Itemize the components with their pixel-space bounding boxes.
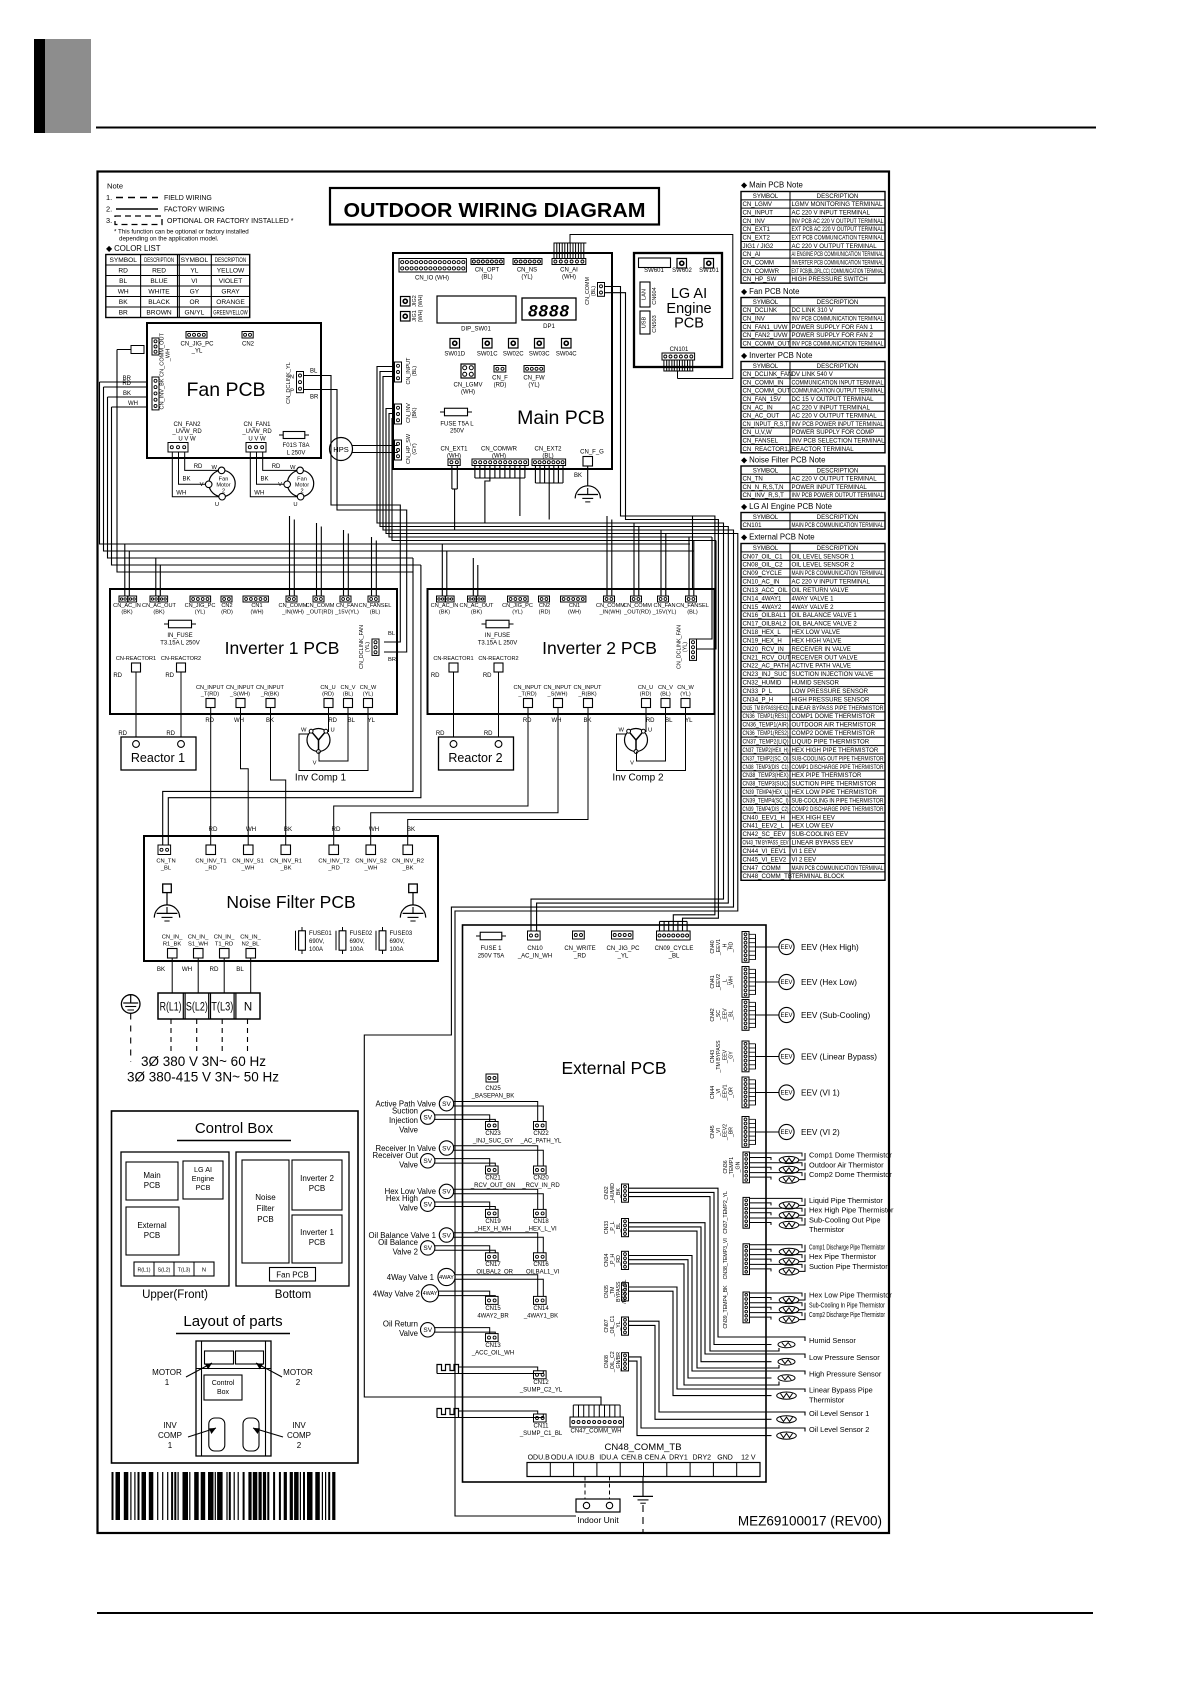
svg-text:RD: RD <box>523 718 532 724</box>
table Noise Filter PCB Note <box>741 466 885 499</box>
Noise Filter PCB board <box>144 836 438 961</box>
crankcase heater comp2 <box>437 1365 459 1374</box>
svg-text:YL: YL <box>368 718 376 724</box>
svg-text:CN1: CN1 <box>569 603 580 609</box>
svg-text:CN_COMM_OUT: CN_COMM_OUT <box>743 388 791 395</box>
wire CN_INV p1 to external bottom bundle <box>386 409 738 1517</box>
svg-text:CN13_ACC_OIL: CN13_ACC_OIL <box>743 587 789 594</box>
svg-text:LG AI: LG AI <box>671 286 707 302</box>
inverter 1 connector CN_AC_OUT <box>150 596 159 602</box>
fuse main FUSE T5A <box>440 411 472 413</box>
svg-text:Fan PCB: Fan PCB <box>276 1271 308 1280</box>
ground CN_F_G <box>587 466 589 486</box>
svg-text:DESCRIPTION: DESCRIPTION <box>817 299 859 306</box>
svg-text:Valve: Valve <box>399 1126 418 1135</box>
connector CN_INV main <box>395 404 402 424</box>
svg-text:FUSE01: FUSE01 <box>309 931 332 937</box>
svg-text:CN_V: CN_V <box>658 685 673 691</box>
thermistor linear bypass pipe <box>777 1392 797 1399</box>
svg-text:OPTIONAL OR FACTORY INSTALLED: OPTIONAL OR FACTORY INSTALLED * <box>167 218 294 225</box>
svg-text:(BL): (BL) <box>343 692 354 698</box>
svg-text:CN-REACTOR2: CN-REACTOR2 <box>161 656 201 662</box>
svg-text:COMMUNICATION OUTPUT TERMINAL: COMMUNICATION OUTPUT TERMINAL <box>792 388 884 395</box>
fuse FUSE02 <box>342 927 344 954</box>
svg-text:(RD): (RD) <box>221 610 233 616</box>
wire CN_COMM A to CN09 <box>605 287 715 922</box>
svg-text:Comp2 Dome Thermistor: Comp2 Dome Thermistor <box>809 1170 892 1179</box>
svg-text:L 250V: L 250V <box>287 451 306 457</box>
svg-text:CN36_TEMP1(AIR): CN36_TEMP1(AIR) <box>743 722 789 729</box>
svg-text:_15V(YL): _15V(YL) <box>334 610 359 616</box>
svg-text:SW03C: SW03C <box>529 352 550 358</box>
layout compressor 1 <box>209 1418 225 1451</box>
valve motor EEV EEV (VI 2) <box>779 1124 794 1139</box>
wires CN101 comb <box>664 360 667 371</box>
svg-text:_RCV_OUT_GN: _RCV_OUT_GN <box>470 1183 515 1189</box>
svg-text:CN604: CN604 <box>652 287 658 304</box>
wires inverter1 inputs to noise filter <box>210 708 212 846</box>
wires noise filter to terminal block <box>171 958 173 993</box>
svg-text:COMMUNICATION INPUT TERMINAL: COMMUNICATION INPUT TERMINAL <box>792 379 885 386</box>
inverter 1 connector CN_COMM_IN <box>286 596 297 602</box>
svg-text:Receiver Out: Receiver Out <box>373 1151 419 1160</box>
svg-text:CN18_HEX_L: CN18_HEX_L <box>743 629 782 636</box>
svg-text:CN14: CN14 <box>533 1306 549 1312</box>
svg-text:SW04C: SW04C <box>556 352 577 358</box>
svg-text:Valve: Valve <box>399 1329 418 1338</box>
svg-text:CN_JIG_PC: CN_JIG_PC <box>502 603 533 609</box>
svg-text:CN20: CN20 <box>533 1175 549 1181</box>
svg-text:CN10_AC_IN: CN10_AC_IN <box>743 579 780 586</box>
svg-text:4WAY VALVE 2: 4WAY VALVE 2 <box>792 604 835 611</box>
svg-text:◆ Fan PCB Note: ◆ Fan PCB Note <box>741 287 799 296</box>
svg-text:INV PCB POWER INPUT TERMINAL: INV PCB POWER INPUT TERMINAL <box>792 421 885 428</box>
thermistor Comp1 Dome Thermistor <box>750 1153 803 1157</box>
svg-text:Noise Filter PCB: Noise Filter PCB <box>226 892 355 912</box>
svg-text:_S(WH): _S(WH) <box>547 692 568 698</box>
svg-text:Reactor 1: Reactor 1 <box>131 751 185 765</box>
svg-text:WH: WH <box>234 718 244 724</box>
svg-text:CN_JIG_PC: CN_JIG_PC <box>180 342 214 348</box>
svg-text:_SC: _SC <box>716 1010 722 1021</box>
crankcase heater comp1 <box>437 1409 459 1418</box>
svg-text:Control Box: Control Box <box>195 1120 274 1137</box>
svg-text:T3.15A L 250V: T3.15A L 250V <box>478 641 517 647</box>
connector CN12_SUMP_C2 <box>534 1371 547 1379</box>
svg-text:Oil Level Sensor 2: Oil Level Sensor 2 <box>809 1425 869 1434</box>
svg-text:SV: SV <box>423 1114 432 1121</box>
svg-text:CN_DCLINK_FAN: CN_DCLINK_FAN <box>743 371 793 378</box>
connector CN_F <box>494 366 506 373</box>
svg-text:RD: RD <box>205 718 214 724</box>
svg-text:External PCB: External PCB <box>561 1058 666 1078</box>
svg-text:RD: RD <box>646 718 655 724</box>
svg-text:COMP: COMP <box>158 1431 182 1440</box>
layout unit outline <box>196 1341 271 1456</box>
svg-text:DC 15 V OUTPUT TERMINAL: DC 15 V OUTPUT TERMINAL <box>792 396 875 403</box>
valve motor EEV EEV (Hex High) <box>779 939 794 954</box>
svg-text:R(L1): R(L1) <box>160 1002 182 1014</box>
svg-text:CN_INPUT: CN_INPUT <box>743 209 774 216</box>
svg-text:MEZ69100017 (REV00): MEZ69100017 (REV00) <box>738 1514 882 1529</box>
page footer rule <box>97 1612 1093 1614</box>
svg-text:LINEAR BYPASS EEV: LINEAR BYPASS EEV <box>792 840 854 847</box>
bottom noise filter box <box>242 1160 289 1263</box>
svg-text:Hex High: Hex High <box>386 1194 418 1203</box>
svg-text:_EEV2: _EEV2 <box>722 1124 728 1141</box>
svg-text:CN_COMM_IN: CN_COMM_IN <box>743 379 784 386</box>
svg-text:INV PCB AC 220 V OUTPUT TERMIN: INV PCB AC 220 V OUTPUT TERMINAL <box>792 218 884 225</box>
sensor oil level 2 <box>777 1432 797 1439</box>
svg-text:OUTDOOR AIR THERMISTOR: OUTDOOR AIR THERMISTOR <box>792 722 877 729</box>
svg-text:Inverter 2 PCB: Inverter 2 PCB <box>542 638 657 658</box>
svg-text:BL: BL <box>388 631 396 637</box>
svg-text:_T(RD): _T(RD) <box>517 692 536 698</box>
wires CN_TN up to gap bus <box>163 558 413 845</box>
svg-text:RD: RD <box>118 731 127 737</box>
svg-text:N: N <box>290 375 294 381</box>
svg-text:DESCRIPTION: DESCRIPTION <box>144 258 174 264</box>
svg-text:Reactor 2: Reactor 2 <box>448 751 502 765</box>
svg-text:Linear Bypass Pipe: Linear Bypass Pipe <box>809 1385 873 1394</box>
svg-text:CN20_RCV_IN: CN20_RCV_IN <box>743 646 784 653</box>
connector CN_INPUT main <box>395 362 402 382</box>
svg-text:CN38_TEMP3(HEX): CN38_TEMP3(HEX) <box>743 772 789 779</box>
svg-text:Comp1 Discharge Pipe Thermisto: Comp1 Discharge Pipe Thermistor <box>809 1242 885 1251</box>
jig connector JIG1 <box>401 312 411 322</box>
wire CN_INPUT p3 to external left bundle <box>364 377 733 1406</box>
connector CN_COMM_OUT_WH <box>152 338 159 355</box>
svg-text:2: 2 <box>296 1378 301 1387</box>
svg-text:AC 220 V INPUT TERMINAL: AC 220 V INPUT TERMINAL <box>792 209 871 216</box>
svg-text:BLACK: BLACK <box>148 299 170 306</box>
thermistor Comp2 Discharge Pipe Thermistor <box>750 1313 803 1317</box>
svg-text:RD: RD <box>113 673 122 679</box>
svg-text:_UVW_RD: _UVW_RD <box>171 429 202 435</box>
switch SW03C <box>535 339 545 349</box>
svg-text:CN_FANSEL: CN_FANSEL <box>676 603 709 609</box>
svg-text:Box: Box <box>217 1389 230 1396</box>
wire stub inverter1 1 <box>124 544 126 596</box>
svg-text:N: N <box>244 1002 252 1014</box>
Fan PCB board <box>147 323 321 458</box>
upper lg ai box <box>183 1161 223 1199</box>
title box OUTDOOR WIRING DIAGRAM <box>330 188 659 225</box>
svg-text:Noise: Noise <box>255 1193 276 1202</box>
svg-text:P: P <box>290 388 294 394</box>
svg-text:CN_AI: CN_AI <box>743 251 761 258</box>
connector CN11_SUMP_C1 <box>534 1414 547 1422</box>
svg-text:SW02C: SW02C <box>503 352 524 358</box>
svg-text:CN-REACTOR2: CN-REACTOR2 <box>478 656 518 662</box>
solenoid SV receiver out <box>421 1154 435 1168</box>
wire fan BR bus <box>100 382 691 544</box>
svg-text:BK: BK <box>583 718 591 724</box>
thermistor Hex High Pipe Thermistor <box>750 1208 803 1212</box>
svg-text:2: 2 <box>297 1441 302 1450</box>
svg-text:Upper(Front): Upper(Front) <box>142 1289 208 1301</box>
svg-text:SYMBOL: SYMBOL <box>753 514 779 521</box>
svg-text:Main: Main <box>143 1171 160 1180</box>
svg-text:SV: SV <box>423 1245 432 1252</box>
svg-text:CN21_RCV_OUT: CN21_RCV_OUT <box>743 654 791 661</box>
svg-text:CN48_COMM_TB: CN48_COMM_TB <box>743 873 792 880</box>
svg-text:_OR: _OR <box>729 1087 735 1099</box>
svg-text:CN_DCLINK_YL: CN_DCLINK_YL <box>286 362 292 404</box>
wire stub inverter1 7 <box>316 523 318 596</box>
svg-text:GND: GND <box>717 1455 733 1462</box>
svg-text:CN_FW: CN_FW <box>523 376 545 382</box>
connector CN18_HEX_L <box>534 1209 547 1217</box>
svg-text:CN39_TEMP4(DIS_C2): CN39_TEMP4(DIS_C2) <box>743 806 789 813</box>
connector CN_INV_S1 <box>244 845 254 855</box>
svg-text:Fan PCB: Fan PCB <box>186 379 265 401</box>
svg-text:DESCRIPTION: DESCRIPTION <box>817 514 859 521</box>
svg-text:WHITE: WHITE <box>148 289 170 296</box>
svg-text:IDU.A: IDU.A <box>599 1455 618 1462</box>
solenoid SV suction injection <box>421 1110 435 1124</box>
svg-text:(WH): (WH) <box>568 610 581 616</box>
svg-text:3Ø 380 V 3N~ 60 Hz: 3Ø 380 V 3N~ 60 Hz <box>141 1054 266 1069</box>
svg-text:CN07_OIL_C1: CN07_OIL_C1 <box>743 553 784 560</box>
svg-text:BL: BL <box>310 369 318 375</box>
svg-text:4WAY: 4WAY <box>439 1275 454 1281</box>
svg-text:ORANGE: ORANGE <box>216 299 245 306</box>
svg-text:_WH: _WH <box>364 866 378 872</box>
svg-text:CN1: CN1 <box>251 603 262 609</box>
svg-text:CN_INV_T1: CN_INV_T1 <box>195 859 226 865</box>
svg-text:ODU.B: ODU.B <box>528 1455 551 1462</box>
svg-text:CN43: CN43 <box>710 1050 716 1063</box>
Main PCB board <box>393 253 612 469</box>
connector CN16_OILBAL1 <box>534 1253 547 1261</box>
sensor low pressure <box>778 1358 795 1365</box>
svg-text:POWER SUPPLY FOR FAN 2: POWER SUPPLY FOR FAN 2 <box>792 332 874 339</box>
svg-text:High Pressure Sensor: High Pressure Sensor <box>809 1370 882 1379</box>
svg-text:FACTORY WIRING: FACTORY WIRING <box>164 207 225 214</box>
svg-text:CN_FANSEL: CN_FANSEL <box>743 437 779 444</box>
svg-text:CN_COMM: CN_COMM <box>743 259 774 266</box>
svg-text:MAIN PCB COMMUNICATION TERMINA: MAIN PCB COMMUNICATION TERMINAL <box>792 570 884 577</box>
svg-text:HPS: HPS <box>333 445 348 454</box>
svg-text:DRY2: DRY2 <box>692 1455 711 1462</box>
svg-text:VIOLET: VIOLET <box>219 278 242 285</box>
svg-text:WH: WH <box>118 289 129 296</box>
svg-text:Inverter 1: Inverter 1 <box>300 1228 334 1237</box>
solenoid SV oil balance 2 <box>421 1241 435 1255</box>
svg-text:Valve 2: Valve 2 <box>393 1247 418 1256</box>
solenoid 4WAY valve 1 <box>438 1268 455 1285</box>
dashed wires to indoor unit <box>584 1477 586 1500</box>
connector CN19_HEX_H <box>486 1209 499 1217</box>
svg-text:_WH: _WH <box>729 976 735 989</box>
fuse FUSE03 <box>382 927 384 954</box>
svg-text:CN36: CN36 <box>723 1160 729 1173</box>
wires CN16 to SV oil balance 1 <box>454 1233 538 1253</box>
svg-text:PCB: PCB <box>144 1231 160 1240</box>
svg-text:IDU.B: IDU.B <box>576 1455 595 1462</box>
svg-text:_R(BK): _R(BK) <box>260 692 279 698</box>
wires high pressure sensor <box>629 1256 806 1375</box>
svg-text:BL: BL <box>119 278 127 285</box>
inv comp 1 motor <box>307 729 330 752</box>
svg-text:SV: SV <box>442 1145 451 1152</box>
svg-text:_EEV2: _EEV2 <box>716 974 722 991</box>
svg-text:CN08_OIL_C2: CN08_OIL_C2 <box>743 562 784 569</box>
switch SW101 <box>704 259 714 269</box>
svg-text:CN_LGMV: CN_LGMV <box>453 383 482 389</box>
svg-text:_AC_IN_WH: _AC_IN_WH <box>517 954 552 960</box>
svg-text:Filter: Filter <box>257 1204 275 1213</box>
switch SW04C <box>562 339 572 349</box>
svg-text:(BK): (BK) <box>471 610 482 616</box>
svg-text:(BK): (BK) <box>121 610 132 616</box>
svg-text:YL: YL <box>190 268 198 275</box>
wires CN_COMWR comb <box>474 466 476 479</box>
svg-text:VI 1 EEV: VI 1 EEV <box>792 848 818 855</box>
svg-text:_TM BYPASS: _TM BYPASS <box>716 1040 722 1074</box>
svg-text:External: External <box>137 1221 167 1230</box>
wire stub inverter1 6 <box>293 520 295 597</box>
svg-text:EEV: EEV <box>780 980 792 986</box>
svg-text:AC 220 V INPUT TERMINAL: AC 220 V INPUT TERMINAL <box>792 404 871 411</box>
svg-text:CN42_SC_EEV: CN42_SC_EEV <box>743 831 787 838</box>
svg-text:CN_NS: CN_NS <box>517 268 537 274</box>
thermistor Sub-Cooling In Pipe Thermistor <box>750 1303 803 1307</box>
svg-text:Comp2 Discharge Pipe Thermisto: Comp2 Discharge Pipe Thermistor <box>809 1310 885 1319</box>
svg-text:S1_WH: S1_WH <box>188 942 208 948</box>
svg-text:BL: BL <box>236 966 244 973</box>
svg-text:◆ Noise Filter PCB Note: ◆ Noise Filter PCB Note <box>741 456 825 465</box>
svg-text:CN_AC_OUT: CN_AC_OUT <box>460 603 494 609</box>
svg-text:SYMBOL: SYMBOL <box>753 363 779 370</box>
svg-text:◆ Inverter PCB Note: ◆ Inverter PCB Note <box>741 351 812 360</box>
svg-text:1.: 1. <box>106 193 112 202</box>
svg-text:RD: RD <box>328 718 337 724</box>
svg-text:DV LINK 540 V: DV LINK 540 V <box>792 371 834 378</box>
wires oil level sensor 1 <box>629 1321 806 1415</box>
svg-text:CN_AC_IN: CN_AC_IN <box>431 603 459 609</box>
svg-text:EEV: EEV <box>780 945 792 951</box>
svg-text:BLUE: BLUE <box>150 278 168 285</box>
svg-text:_BK: _BK <box>280 866 292 872</box>
svg-text:(YL): (YL) <box>363 692 374 698</box>
valve motor EEV EEV (Linear Bypass) <box>779 1049 794 1064</box>
svg-text:INV PCB SELECTION TERMINAL: INV PCB SELECTION TERMINAL <box>792 437 886 444</box>
svg-text:CN_AC_OUT: CN_AC_OUT <box>743 413 780 420</box>
wires low pressure sensor <box>629 1223 806 1358</box>
svg-text:YELLOW: YELLOW <box>217 268 245 275</box>
svg-text:Comp1 Dome Thermistor: Comp1 Dome Thermistor <box>809 1151 892 1160</box>
thermistor Comp1 Discharge Pipe Thermistor <box>750 1245 803 1249</box>
svg-text:OIL LEVEL SENSOR 1: OIL LEVEL SENSOR 1 <box>792 553 855 560</box>
svg-text:CN38_TEMP3(DIS_C1): CN38_TEMP3(DIS_C1) <box>743 764 789 771</box>
svg-text:CN2: CN2 <box>539 603 550 609</box>
svg-text:CN36_TEMP1(RES2): CN36_TEMP1(RES2) <box>743 730 789 737</box>
svg-text:RD: RD <box>118 268 128 275</box>
wire DCLINK BR fan to inverter1 <box>304 390 407 653</box>
wire stub CN_COMM_OUT <box>131 346 144 354</box>
svg-text:BK: BK <box>266 718 274 724</box>
svg-text:VI 2 EEV: VI 2 EEV <box>792 856 818 863</box>
svg-text:CN_INV_S1: CN_INV_S1 <box>232 859 264 865</box>
thermistor Hex Low Pipe Thermistor <box>750 1293 803 1297</box>
svg-text:(YL): (YL) <box>528 383 539 389</box>
svg-text:_HEX_H_WH: _HEX_H_WH <box>474 1226 512 1232</box>
svg-text:CN_INV_T2: CN_INV_T2 <box>318 859 349 865</box>
svg-text:CN38_TEMP3(SUC): CN38_TEMP3(SUC) <box>743 781 789 788</box>
svg-text:CN_INV: CN_INV <box>743 218 766 225</box>
upper terminal strip <box>134 1262 214 1276</box>
svg-text:_T(RD): _T(RD) <box>200 692 219 698</box>
wire CN_COMM_OUT stub <box>117 350 413 573</box>
svg-text:SW01C: SW01C <box>477 352 498 358</box>
svg-text:RD: RD <box>122 381 131 387</box>
svg-text:CN19_HEX_H: CN19_HEX_H <box>743 637 782 644</box>
thermistor Suction Pipe Thermistor <box>750 1264 803 1268</box>
svg-text:DRY1: DRY1 <box>669 1455 688 1462</box>
svg-text:CN_OPT: CN_OPT <box>475 268 500 274</box>
svg-text:_GY: _GY <box>729 1051 735 1063</box>
svg-text:100A: 100A <box>309 947 323 953</box>
wires linear bypass thermistor <box>629 1287 806 1392</box>
svg-text:S(L2): S(L2) <box>186 1002 208 1014</box>
svg-text:WH: WH <box>176 491 186 497</box>
svg-text:SYMBOL: SYMBOL <box>753 467 779 474</box>
svg-text:Thermistor: Thermistor <box>809 1395 845 1404</box>
svg-text:CEN.A: CEN.A <box>644 1455 666 1462</box>
svg-text:_L: _L <box>722 979 728 986</box>
dashed field wiring to mains <box>170 1019 172 1051</box>
solenoid SV oil balance 1 <box>439 1228 453 1242</box>
wires CN22 to SV active path <box>454 1102 538 1122</box>
svg-text:(BK): (BK) <box>439 610 450 616</box>
svg-text:WH: WH <box>254 491 264 497</box>
svg-text:SW101: SW101 <box>699 268 719 274</box>
connector CN15_4WAY2 <box>486 1296 499 1304</box>
svg-text:EEV: EEV <box>780 1130 792 1136</box>
inverter 1 connector CN_FANSEL <box>368 596 379 602</box>
svg-text:CN45_VI_EEV2: CN45_VI_EEV2 <box>743 856 787 863</box>
sensor high pressure <box>778 1375 795 1382</box>
svg-text:_WH: _WH <box>166 349 172 362</box>
table External PCB Note <box>741 544 885 881</box>
svg-text:COMP2 DOME THERMISTOR: COMP2 DOME THERMISTOR <box>792 730 876 737</box>
svg-text:INVERTER PCB COMMUNICATION TER: INVERTER PCB COMMUNICATION TERMINAL <box>792 259 884 266</box>
svg-text:(YL): (YL) <box>195 610 206 616</box>
fuse F01S T8A <box>279 434 309 436</box>
inverter 1 connector CN_COMM_OUT <box>313 596 324 602</box>
inverter 1 connector CN1 <box>243 596 268 602</box>
svg-text:T(L3): T(L3) <box>178 1268 191 1274</box>
connector CN_HP_SW <box>395 440 402 460</box>
wire stub inverter1 12 <box>375 541 377 597</box>
svg-text:(WH): (WH) <box>250 610 263 616</box>
svg-text:DP1: DP1 <box>543 324 555 330</box>
svg-text:ODU.A: ODU.A <box>551 1455 574 1462</box>
svg-text:◆ LG AI Engine PCB Note: ◆ LG AI Engine PCB Note <box>741 502 832 511</box>
svg-text:Bottom: Bottom <box>275 1289 311 1301</box>
inverter 2 connector CN_FANSEL <box>686 596 697 602</box>
wires CN20 to SV receiver in <box>454 1146 538 1166</box>
svg-text:Hex High Pipe Thermistor: Hex High Pipe Thermistor <box>809 1206 894 1215</box>
svg-text:CN_W: CN_W <box>360 685 377 691</box>
svg-text:(BL): (BL) <box>412 366 418 376</box>
connector CN_INV_R2 <box>403 845 413 855</box>
svg-text:CN41: CN41 <box>710 975 716 988</box>
svg-text:CN_LGMV: CN_LGMV <box>743 201 773 208</box>
svg-text:OR: OR <box>189 299 199 306</box>
